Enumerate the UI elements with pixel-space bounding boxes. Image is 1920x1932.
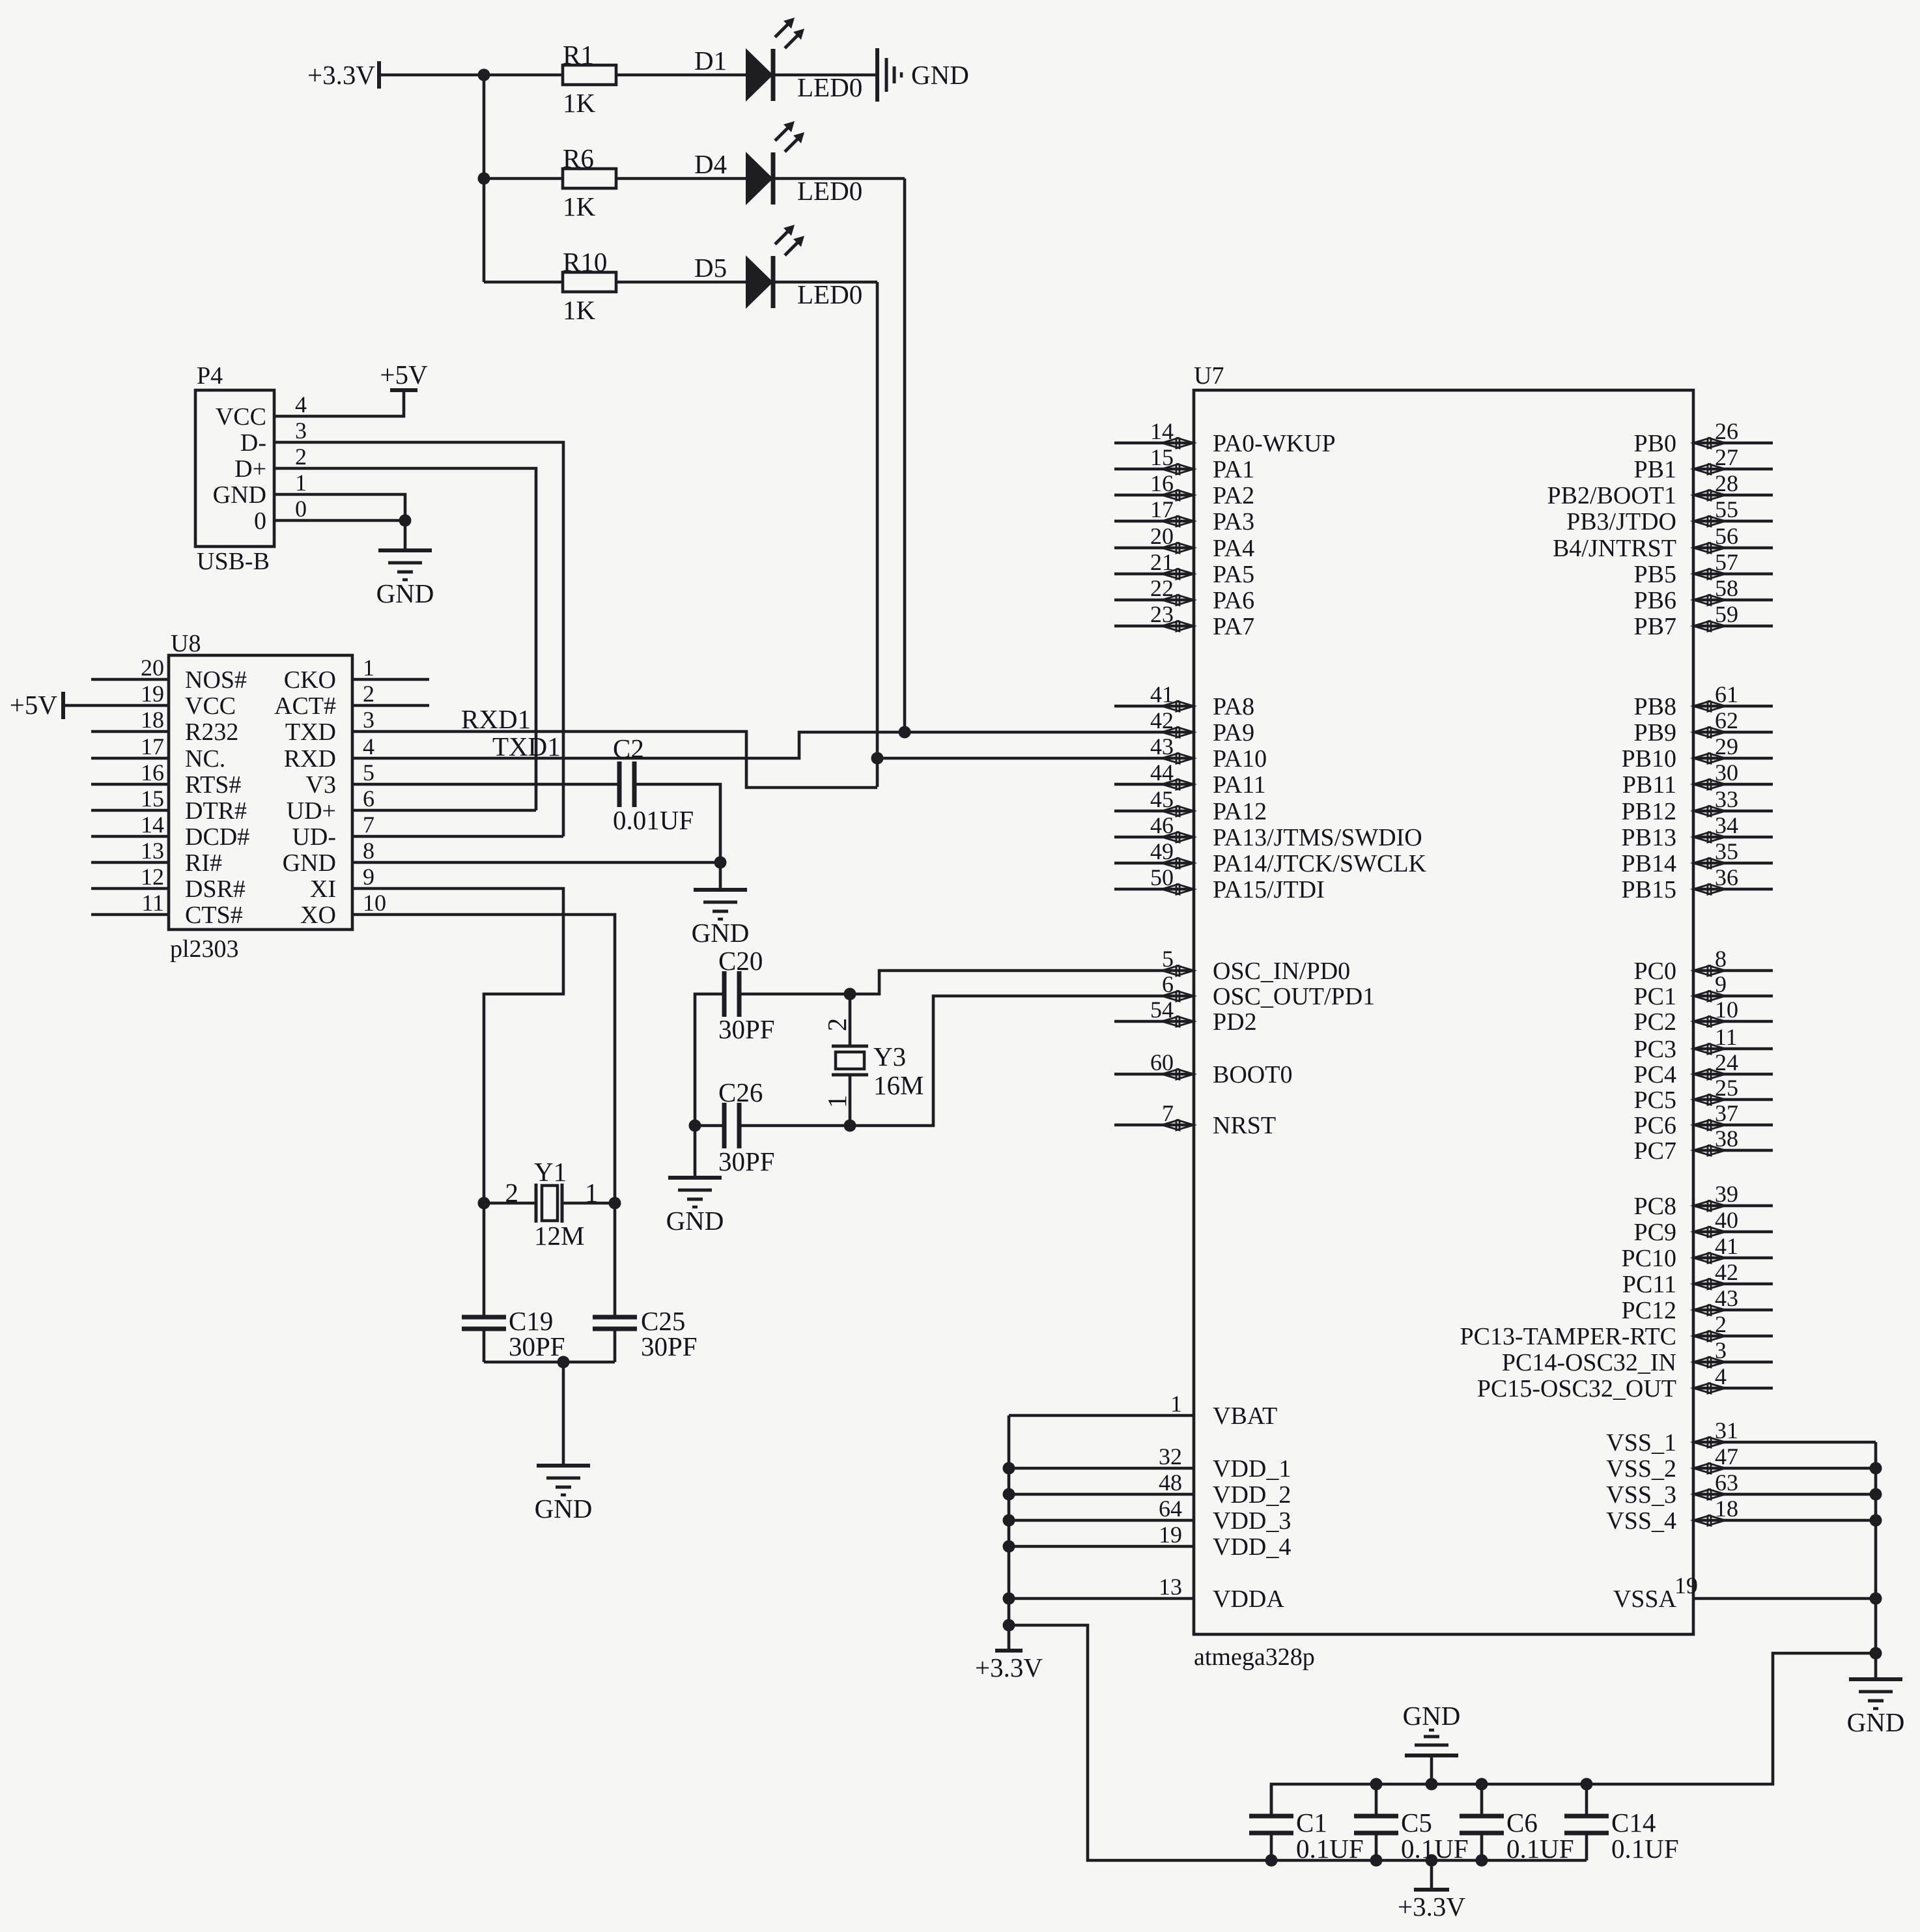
- U7 pin 40 (PC9): [1634, 1207, 1773, 1246]
- svg-text:1: 1: [363, 655, 374, 681]
- svg-text:2: 2: [505, 1178, 519, 1208]
- svg-text:35: 35: [1715, 838, 1738, 864]
- wire U8 GND stub down: [719, 862, 722, 890]
- wire C6 top stub: [1480, 1784, 1484, 1816]
- LED D1: [746, 18, 804, 102]
- svg-text:+5V: +5V: [380, 360, 428, 390]
- capacitor C2: [619, 761, 634, 807]
- junction dot top rail x2113: [1370, 1778, 1383, 1791]
- svg-text:13: 13: [141, 838, 164, 864]
- svg-text:DSR#: DSR#: [185, 875, 246, 903]
- IC U7 body: [1194, 390, 1693, 1634]
- svg-text:PB6: PB6: [1634, 587, 1676, 614]
- ground GND right of D1 (rotated): [877, 48, 969, 102]
- resistor R10: [563, 272, 616, 292]
- svg-text:PC13-TAMPER-RTC: PC13-TAMPER-RTC: [1460, 1323, 1677, 1350]
- U7 pin 22 (PA6): [1114, 575, 1254, 614]
- svg-text:V3: V3: [306, 771, 336, 799]
- wire C26 row: [695, 1124, 724, 1128]
- U7 pin 59 (PB7): [1634, 601, 1773, 640]
- svg-text:BOOT0: BOOT0: [1213, 1061, 1292, 1088]
- svg-text:20: 20: [141, 655, 164, 681]
- wire Y1 pin1 lead: [562, 1202, 615, 1205]
- svg-text:19: 19: [141, 681, 164, 707]
- U7 pin 5 (OSC_IN/PD0): [1162, 946, 1350, 985]
- capacitor C25: [593, 1317, 637, 1329]
- svg-text:39: 39: [1715, 1181, 1738, 1207]
- svg-text:33: 33: [1715, 786, 1738, 812]
- ground GND bottom right: [1847, 1679, 1905, 1737]
- svg-text:VSS_1: VSS_1: [1606, 1429, 1676, 1456]
- svg-text:58: 58: [1715, 575, 1738, 601]
- svg-text:2: 2: [822, 1018, 852, 1032]
- junction dot C26 ground node: [689, 1120, 701, 1132]
- power +5V left of U8: [10, 690, 63, 720]
- svg-text:30PF: 30PF: [718, 1146, 775, 1176]
- junction dot bottom rail x2198: [1426, 1854, 1438, 1867]
- svg-text:48: 48: [1159, 1470, 1182, 1496]
- svg-text:45: 45: [1150, 786, 1174, 812]
- wire C20 row: [739, 993, 850, 996]
- U7 pin 14 (PA0-WKUP): [1114, 418, 1336, 457]
- svg-text:12: 12: [141, 864, 164, 890]
- U7 pin 7 (NRST): [1114, 1100, 1276, 1139]
- svg-text:1: 1: [1170, 1391, 1182, 1417]
- svg-text:46: 46: [1150, 812, 1174, 838]
- ground GND below P4: [376, 550, 434, 608]
- wire OSC_OUT net to U7: [850, 996, 1194, 1126]
- svg-text:GND: GND: [911, 60, 969, 90]
- svg-text:PA3: PA3: [1213, 508, 1254, 535]
- U7 pin 23 (PA7): [1114, 601, 1254, 640]
- svg-text:3: 3: [295, 418, 307, 444]
- svg-text:VDD_4: VDD_4: [1213, 1533, 1291, 1561]
- wire P4 GND pin1: [274, 494, 405, 520]
- junction dot bottom rail x2113: [1370, 1854, 1383, 1867]
- IC U8 body: [169, 655, 352, 930]
- svg-text:R10: R10: [563, 247, 607, 277]
- svg-text:PA9: PA9: [1213, 719, 1254, 746]
- wire bottom GND stub: [1430, 1755, 1433, 1784]
- svg-text:7: 7: [1162, 1100, 1174, 1126]
- U7 pin 35 (PB14): [1622, 838, 1773, 877]
- junction dot crystal ground rail: [558, 1356, 570, 1369]
- U7 pin 57 (PB5): [1634, 549, 1773, 588]
- wire P4 D+ net (to U8 UD+): [274, 468, 536, 810]
- wire D5 cathode: [773, 281, 877, 284]
- svg-text:B4/JNTRST: B4/JNTRST: [1553, 535, 1676, 562]
- svg-text:VCC: VCC: [185, 692, 236, 720]
- U7 pin 44 (PA11): [1114, 760, 1266, 799]
- wire D5 cathode down to RXD1/PA10 net: [876, 282, 879, 787]
- svg-text:PC1: PC1: [1634, 983, 1676, 1010]
- svg-text:49: 49: [1150, 838, 1174, 864]
- wire Y1 pin2 down to C19: [483, 1203, 486, 1317]
- ground GND below C2: [692, 890, 750, 948]
- U7 pin 63 (VSS_3): [1606, 1470, 1876, 1509]
- svg-text:PD2: PD2: [1213, 1008, 1257, 1036]
- svg-text:VSS_3: VSS_3: [1606, 1481, 1676, 1509]
- junction dot VSS bus y2538: [1870, 1647, 1882, 1660]
- svg-text:15: 15: [1150, 444, 1174, 470]
- svg-text:1K: 1K: [563, 88, 596, 118]
- svg-text:21: 21: [1150, 549, 1174, 575]
- svg-text:29: 29: [1715, 733, 1738, 760]
- U7 pin 43 (PA10): [1150, 733, 1267, 773]
- U7 pin 6 (OSC_OUT/PD1): [1162, 971, 1375, 1010]
- svg-text:PA14/JTCK/SWCLK: PA14/JTCK/SWCLK: [1213, 850, 1427, 877]
- svg-text:17: 17: [141, 733, 164, 760]
- svg-text:1: 1: [585, 1178, 599, 1208]
- svg-text:XO: XO: [300, 902, 336, 929]
- svg-text:62: 62: [1715, 707, 1738, 733]
- wire decoupling top rail: [1271, 1653, 1876, 1816]
- svg-text:PC8: PC8: [1634, 1193, 1676, 1220]
- capacitor C14: [1564, 1816, 1609, 1833]
- wire C26 ground stub: [694, 1126, 697, 1178]
- svg-text:0: 0: [254, 507, 266, 535]
- U7 pin 29 (PB10): [1622, 733, 1773, 773]
- svg-text:PA6: PA6: [1213, 587, 1254, 614]
- power +3.3V (top left): [307, 60, 379, 90]
- wire C2 to ground node: [634, 784, 720, 862]
- svg-text:PC2: PC2: [1634, 1008, 1676, 1036]
- svg-text:63: 63: [1715, 1470, 1738, 1496]
- junction dot top rail x2436: [1581, 1778, 1593, 1791]
- junction dot VDD bus y2254: [1003, 1462, 1015, 1475]
- junction dot bottom rail x2275: [1476, 1854, 1488, 1867]
- net RXD1 wire to U7 PA10: [877, 757, 1194, 760]
- P4 pin 3 (D-): [240, 418, 307, 457]
- U7 pin 41 (PC10): [1622, 1233, 1773, 1272]
- capacitor C20: [724, 971, 739, 1017]
- svg-text:UD-: UD-: [292, 823, 336, 851]
- svg-text:32: 32: [1159, 1443, 1182, 1470]
- svg-text:VCC: VCC: [216, 403, 266, 431]
- svg-text:VSSA: VSSA: [1613, 1585, 1677, 1613]
- P4 pin 1 (GND): [213, 470, 307, 509]
- svg-text:30PF: 30PF: [718, 1014, 775, 1044]
- svg-text:+3.3V: +3.3V: [975, 1653, 1043, 1683]
- svg-text:PB2/BOOT1: PB2/BOOT1: [1547, 482, 1676, 509]
- U7 pin 33 (PB12): [1622, 786, 1773, 825]
- svg-text:37: 37: [1715, 1100, 1738, 1126]
- svg-text:DTR#: DTR#: [185, 797, 247, 825]
- svg-text:15: 15: [141, 786, 164, 812]
- U7 pin 60 (BOOT0): [1114, 1049, 1292, 1088]
- svg-text:P4: P4: [197, 362, 223, 390]
- wire U8 V3 to C2: [352, 783, 619, 786]
- wire U8 XO to crystal Y1: [352, 915, 615, 1203]
- junction dot U8 GND node: [714, 857, 727, 869]
- U8 pin 19 (VCC): [63, 681, 236, 720]
- svg-text:PA5: PA5: [1213, 561, 1254, 588]
- U7 pin 20 (PA4): [1114, 523, 1254, 562]
- junction dot D5 on RXD1/PA10 net: [871, 752, 884, 765]
- svg-text:36: 36: [1715, 864, 1738, 890]
- svg-text:41: 41: [1715, 1233, 1738, 1259]
- svg-text:50: 50: [1150, 864, 1174, 890]
- wire C5 bottom stub: [1375, 1833, 1378, 1860]
- U7 pin 1 (VBAT): [1009, 1391, 1277, 1430]
- svg-text:PB5: PB5: [1634, 561, 1676, 588]
- svg-text:47: 47: [1715, 1443, 1738, 1470]
- svg-text:PB11: PB11: [1622, 771, 1676, 799]
- U7 pin 36 (PB15): [1622, 864, 1773, 903]
- junction dot Y3 pin1 node: [844, 1120, 856, 1132]
- U7 pin 54 (PD2): [1114, 997, 1257, 1036]
- svg-text:38: 38: [1715, 1126, 1738, 1152]
- U8 pin 13 (RI#): [91, 838, 222, 877]
- junction dot node +3.3V/R1: [478, 69, 490, 81]
- wire D1 resistor to LED: [616, 74, 746, 77]
- svg-text:1K: 1K: [563, 192, 596, 221]
- wire P4 ground stub: [404, 520, 407, 550]
- wire P4 pin0 to ground: [274, 519, 405, 522]
- wire crystal ground rail: [484, 1361, 615, 1364]
- U7 pin 3 (PC14-OSC32_IN): [1502, 1337, 1773, 1376]
- svg-text:14: 14: [1150, 418, 1174, 444]
- junction dot P4 ground node: [399, 515, 412, 527]
- wire branch to R10: [484, 281, 563, 284]
- junction dot top rail x2198: [1426, 1778, 1438, 1791]
- U7 pin 13 (VDDA): [1009, 1574, 1284, 1613]
- svg-text:55: 55: [1715, 496, 1738, 522]
- net RXD1: wire U8 TXD with jog: [352, 732, 877, 788]
- svg-text:PC7: PC7: [1634, 1137, 1676, 1165]
- junction dot Y1 pin1 node: [609, 1197, 621, 1210]
- svg-text:11: 11: [1715, 1024, 1738, 1050]
- crystal Y1: [536, 1184, 562, 1223]
- svg-text:OSC_OUT/PD1: OSC_OUT/PD1: [1213, 983, 1375, 1010]
- svg-text:GND: GND: [283, 849, 336, 877]
- junction dot VSS bus y2294: [1870, 1488, 1882, 1501]
- svg-text:OSC_IN/PD0: OSC_IN/PD0: [1213, 958, 1350, 985]
- svg-text:11: 11: [141, 890, 164, 916]
- wire U8 GND row: [352, 861, 720, 864]
- svg-text:PA13/JTMS/SWDIO: PA13/JTMS/SWDIO: [1213, 824, 1422, 851]
- wire C1 bottom stub: [1270, 1833, 1273, 1860]
- wire U8 XI to crystal Y1: [352, 888, 563, 1203]
- svg-text:GND: GND: [666, 1206, 724, 1236]
- svg-text:PB13: PB13: [1622, 824, 1676, 851]
- svg-text:+3.3V: +3.3V: [1398, 1892, 1465, 1922]
- wire crystal rail ground stub: [562, 1362, 565, 1466]
- svg-text:PB8: PB8: [1634, 693, 1676, 720]
- svg-text:PA4: PA4: [1213, 535, 1254, 562]
- wire U8 ACT# stub: [352, 704, 429, 707]
- svg-text:28: 28: [1715, 470, 1738, 496]
- svg-text:60: 60: [1150, 1049, 1174, 1075]
- svg-text:12M: 12M: [534, 1221, 584, 1251]
- U8 pin 2 (ACT#) number/name: [274, 681, 374, 720]
- capacitor C26: [724, 1103, 739, 1148]
- junction dot at R6 branch: [478, 173, 490, 185]
- svg-text:D-: D-: [240, 429, 266, 457]
- svg-text:4: 4: [295, 391, 307, 418]
- svg-text:R6: R6: [563, 143, 594, 173]
- wire VDD bus to bottom rail: [1009, 1625, 1587, 1860]
- svg-text:14: 14: [141, 812, 164, 838]
- wire U8 UD+ stub: [352, 809, 536, 812]
- U7 pin 61 (PB8): [1634, 681, 1773, 720]
- U7 pin 27 (PB1): [1634, 444, 1773, 483]
- junction dot Y3 pin2 node: [844, 988, 856, 1001]
- U8 pin 15 (DTR#): [91, 786, 247, 825]
- ground GND below Y1 caps: [535, 1466, 593, 1524]
- svg-text:UD+: UD+: [287, 797, 336, 825]
- svg-text:0.1UF: 0.1UF: [1296, 1834, 1364, 1864]
- svg-text:PC0: PC0: [1634, 958, 1676, 985]
- svg-text:61: 61: [1715, 681, 1738, 707]
- svg-text:PC15-OSC32_OUT: PC15-OSC32_OUT: [1477, 1375, 1676, 1402]
- svg-text:PC12: PC12: [1622, 1297, 1676, 1324]
- svg-text:C20: C20: [718, 946, 763, 976]
- U7 pin 43 (PC12): [1622, 1285, 1773, 1324]
- junction dot VSS bus y2254: [1870, 1462, 1882, 1475]
- wire OSC_IN net from U7: [850, 971, 1194, 994]
- junction dot bottom rail x1952: [1265, 1854, 1278, 1867]
- U7 pin 30 (PB11): [1622, 760, 1773, 799]
- svg-text:RXD: RXD: [284, 745, 336, 773]
- svg-text:+5V: +5V: [10, 690, 58, 720]
- svg-text:4: 4: [363, 733, 374, 760]
- wire +3.3V vertical bus to R6/R10: [483, 75, 486, 282]
- svg-text:C26: C26: [718, 1077, 763, 1107]
- svg-text:6: 6: [1162, 971, 1174, 997]
- svg-text:CKO: CKO: [284, 666, 336, 694]
- capacitor C1: [1249, 1816, 1293, 1833]
- svg-text:PC14-OSC32_IN: PC14-OSC32_IN: [1502, 1349, 1676, 1376]
- svg-text:PB9: PB9: [1634, 719, 1676, 746]
- svg-text:PA2: PA2: [1213, 482, 1254, 509]
- U8 pin 3 (TXD) number/name: [285, 707, 374, 746]
- svg-text:RTS#: RTS#: [185, 771, 241, 799]
- svg-text:TXD: TXD: [285, 718, 336, 746]
- svg-text:9: 9: [363, 864, 374, 890]
- svg-text:54: 54: [1150, 997, 1174, 1023]
- svg-text:GND: GND: [692, 918, 750, 948]
- svg-text:PB0: PB0: [1634, 430, 1676, 457]
- svg-text:RXD1: RXD1: [461, 704, 531, 734]
- capacitor C6: [1460, 1816, 1504, 1833]
- U8 pin 6 (UD+) number/name: [287, 786, 374, 825]
- connector P4 body: [195, 390, 274, 547]
- U8 pin 10 (XO) number/name: [300, 890, 386, 929]
- U7 pin 21 (PA5): [1114, 549, 1254, 588]
- wire D5 resistor to LED: [616, 281, 746, 284]
- U7 pin 17 (PA3): [1114, 496, 1254, 535]
- U7 pin 10 (PC2): [1634, 997, 1773, 1036]
- junction dot VDD bus y2495: [1003, 1619, 1015, 1632]
- wire D4 cathode down to PA9 net: [903, 178, 907, 732]
- svg-text:NOS#: NOS#: [185, 666, 247, 694]
- wire U8 UD- stub: [352, 835, 563, 838]
- wire C1 top stub: [1270, 1784, 1273, 1816]
- svg-text:13: 13: [1159, 1574, 1182, 1600]
- svg-text:pl2303: pl2303: [170, 935, 239, 963]
- wire P4 D- net (to U8 UD-): [274, 442, 563, 836]
- U7 pin 8 (PC0): [1634, 946, 1773, 985]
- svg-text:0.1UF: 0.1UF: [1506, 1834, 1574, 1864]
- svg-text:31: 31: [1715, 1417, 1738, 1443]
- capacitor C19: [462, 1317, 506, 1329]
- svg-text:NC.: NC.: [185, 745, 225, 773]
- svg-text:7: 7: [363, 812, 374, 838]
- wire Y1 pin1 down to C25: [614, 1203, 617, 1317]
- svg-text:25: 25: [1715, 1075, 1738, 1101]
- U7 pin 18 (VSS_4): [1606, 1496, 1876, 1535]
- U7 pin 56 (B4/JNTRST): [1553, 523, 1773, 562]
- svg-text:26: 26: [1715, 418, 1738, 444]
- power +3.3V left bus: [975, 1651, 1043, 1683]
- U7 pin 38 (PC7): [1634, 1126, 1773, 1165]
- svg-text:PC11: PC11: [1622, 1271, 1676, 1298]
- svg-text:27: 27: [1715, 444, 1738, 470]
- wire C14 bottom stub: [1585, 1833, 1588, 1860]
- svg-text:10: 10: [1715, 997, 1738, 1023]
- wire Y3 pin2 lead: [849, 994, 852, 1046]
- U7 pin 48 (VDD_2): [1009, 1470, 1291, 1509]
- svg-text:18: 18: [1715, 1496, 1738, 1522]
- svg-text:U8: U8: [171, 630, 201, 657]
- svg-text:40: 40: [1715, 1207, 1738, 1233]
- wire VDD bus vertical: [1008, 1415, 1011, 1651]
- P4 pin 2 (D+): [234, 444, 307, 483]
- U7 pin 64 (VDD_3): [1009, 1496, 1291, 1535]
- svg-text:VDD_3: VDD_3: [1213, 1507, 1291, 1535]
- svg-text:PA10: PA10: [1213, 745, 1267, 773]
- svg-text:+3.3V: +3.3V: [307, 60, 375, 90]
- U8 pin 17 (NC.): [91, 733, 225, 773]
- U8 pin 7 (UD-) number/name: [292, 812, 374, 851]
- svg-text:DCD#: DCD#: [185, 823, 249, 851]
- U7 pin 32 (VDD_1): [1009, 1443, 1291, 1483]
- svg-text:18: 18: [141, 707, 164, 733]
- wire C20 left to ground branch: [695, 994, 724, 1126]
- svg-text:D4: D4: [694, 149, 727, 179]
- wire C25 to rail: [614, 1329, 617, 1362]
- junction dot VDD bus y2374: [1003, 1541, 1015, 1553]
- U8 pin 18 (R232): [91, 707, 238, 746]
- svg-text:CTS#: CTS#: [185, 902, 243, 929]
- svg-text:GND: GND: [535, 1494, 593, 1524]
- svg-text:44: 44: [1150, 760, 1174, 786]
- P4 pin 0 (0): [254, 496, 307, 535]
- svg-text:PB1: PB1: [1634, 456, 1676, 483]
- wire Y3 pin1 lead: [849, 1075, 852, 1126]
- junction dot VDD bus y2294: [1003, 1488, 1015, 1501]
- U8 pin 11 (CTS#): [91, 890, 243, 929]
- svg-text:30: 30: [1715, 760, 1738, 786]
- svg-text:VSS_4: VSS_4: [1606, 1507, 1676, 1535]
- junction dot VDD bus y2334: [1003, 1514, 1015, 1527]
- wire P4 VCC to +5V: [274, 390, 404, 416]
- svg-text:PA7: PA7: [1213, 613, 1254, 640]
- svg-text:PA12: PA12: [1213, 798, 1267, 825]
- crystal Y3: [832, 1046, 868, 1075]
- svg-text:PC4: PC4: [1634, 1061, 1676, 1088]
- U8 pin 9 (XI) number/name: [310, 864, 374, 903]
- svg-text:2: 2: [1715, 1311, 1727, 1337]
- svg-text:1K: 1K: [563, 295, 596, 325]
- wire U8 CKO stub: [352, 678, 429, 681]
- U7 pin 39 (PC8): [1634, 1181, 1773, 1220]
- svg-text:PB7: PB7: [1634, 613, 1676, 640]
- wire VSS bus vertical: [1874, 1442, 1878, 1679]
- svg-text:30PF: 30PF: [509, 1331, 565, 1361]
- U7 pin 9 (PC1): [1634, 971, 1773, 1010]
